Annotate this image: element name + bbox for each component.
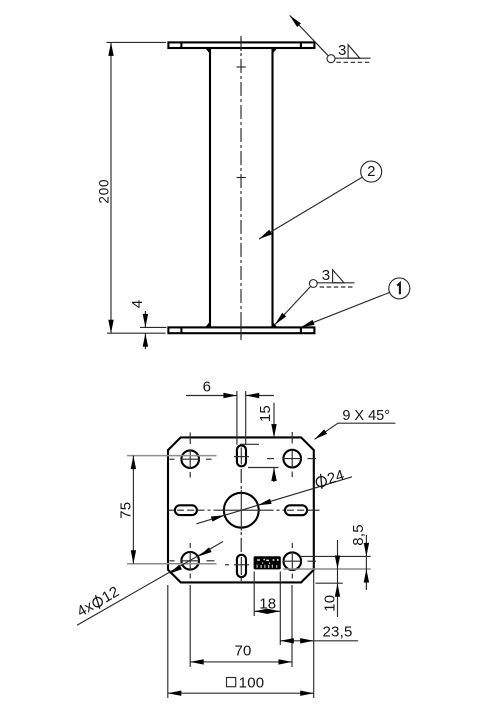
- hole top-right Ø12: [283, 450, 301, 468]
- centerline across top flange: [240, 39, 242, 51]
- chamfer note leader shoulder: [338, 422, 396, 424]
- slot bottom: [237, 555, 246, 577]
- dim square100 arrow left: [168, 691, 182, 696]
- svg-text:6: 6: [203, 379, 212, 396]
- balloon 2 leader arrowhead: [258, 230, 272, 242]
- top flange plate: [168, 42, 314, 48]
- dim 8.5 extension line bottom: [283, 568, 371, 570]
- slot left: [175, 505, 197, 515]
- balloon 1 leader: [301, 293, 389, 328]
- dim 70 arrow right: [279, 659, 293, 664]
- dim 6 dimension line left part: [186, 395, 237, 397]
- svg-text:10: 10: [322, 595, 339, 612]
- holes note leader: [77, 542, 223, 626]
- dim 18 arrow right: [267, 609, 281, 614]
- slot bottom centerline dash: [234, 564, 249, 566]
- dim 23.5 arrow left: [280, 638, 294, 643]
- dim 23.5 dimension line: [280, 640, 358, 642]
- holes note arrowhead on hole: [197, 547, 211, 558]
- weld symbol top leader: [290, 15, 329, 55]
- dim 75 arrow top: [131, 456, 136, 470]
- svg-text:75: 75: [117, 502, 134, 519]
- plate horizontal centerline: [168, 509, 321, 511]
- hole bottom-left Ø12: [181, 552, 199, 570]
- bottom flange chamfer tick left: [180, 327, 182, 333]
- svg-text:3: 3: [338, 42, 347, 59]
- dim 200 arrow bottom: [108, 320, 113, 334]
- centerline across bottom flange: [240, 325, 242, 338]
- dim 8.5 dimension line: [365, 535, 367, 590]
- extension line hatch right: [279, 572, 281, 646]
- hole bottom-right centerline cross: [283, 543, 316, 579]
- dim 4 dimension line lower: [144, 333, 146, 349]
- dim 6 dimension line right part: [246, 395, 274, 397]
- balloon 1 text: [397, 283, 400, 294]
- svg-text:2: 2: [367, 163, 376, 180]
- dim dia24 arrow right: [257, 499, 271, 508]
- slot right: [285, 505, 307, 515]
- dim 23.5 arrow right: [300, 638, 314, 643]
- extension line hole left column: [189, 585, 191, 667]
- weld symbol bottom leader: [275, 286, 311, 324]
- weld symbol top reference line: [335, 57, 371, 59]
- dim 75 dimension line: [132, 456, 134, 564]
- plate bottom edge extension right: [316, 582, 343, 584]
- dim 8.5 arrow bottom: [364, 569, 369, 583]
- balloon 1 leader arrowhead: [300, 320, 315, 330]
- weld symbol top fillet triangle: [348, 45, 360, 59]
- PLAN VIEW: [74, 379, 395, 699]
- extension line plate right edge: [313, 571, 315, 698]
- dim 200 arrow top: [108, 42, 113, 56]
- dim square100 dimension line: [168, 692, 314, 694]
- slot top centerline dash: [234, 456, 249, 458]
- chamfer note arrowhead: [313, 429, 327, 441]
- svg-text:18: 18: [259, 595, 276, 612]
- holes note arrowhead on chamfer: [168, 565, 182, 576]
- center hole centerline cross: [222, 509, 261, 511]
- weld fillet top left: [205, 48, 210, 54]
- top flange chamfer tick left: [180, 42, 182, 48]
- slot top: [237, 445, 246, 466]
- svg-text:200: 200: [97, 179, 112, 204]
- hole bottom-right Ø12: [284, 552, 302, 570]
- dim 10 arrow top: [335, 556, 340, 570]
- slot top tangent extension line: [240, 443, 259, 445]
- dim 200 dimension line: [110, 42, 112, 333]
- column tube left edge: [209, 48, 211, 327]
- marking area speckles: [257, 559, 279, 568]
- base plate outline with corner chamfers: [168, 437, 314, 582]
- weld symbol top dashed identification line: [336, 61, 369, 63]
- dim 4 extension line top: [140, 326, 167, 328]
- dim 18 arrow left: [254, 609, 268, 614]
- marking area hatch rectangle: [254, 556, 281, 569]
- dim 70 arrow left: [190, 659, 204, 664]
- dim 15 dimension line lower: [273, 468, 275, 483]
- dim 70 dimension line: [190, 661, 292, 663]
- weld symbol bottom circle: [309, 280, 317, 288]
- dim 4 arrow lower: [143, 333, 148, 347]
- weld fillet bottom left: [205, 321, 210, 327]
- dim dia24 dimension line: [196, 477, 352, 524]
- svg-text:70: 70: [234, 642, 251, 659]
- hole bottom-left centerline cross: [170, 543, 215, 579]
- weld symbol top leader arrowhead: [288, 14, 301, 28]
- weld fillet bottom right: [273, 321, 278, 327]
- plate vertical centerline: [240, 446, 242, 583]
- slot bottom left outside dash: [225, 564, 229, 566]
- top flange chamfer tick right: [300, 42, 302, 48]
- dim 6 extension line right: [245, 391, 247, 445]
- svg-text:4: 4: [129, 300, 146, 309]
- svg-text:23,5: 23,5: [323, 624, 353, 641]
- center mark tick lower: [237, 177, 246, 179]
- dim 15 dimension line upper: [273, 403, 275, 438]
- svg-text:15: 15: [257, 405, 274, 422]
- hole top-left Ø12: [181, 450, 199, 468]
- hole top-left centerline cross: [170, 433, 212, 478]
- weld fillet top right: [273, 48, 278, 54]
- weld symbol bottom leader arrowhead: [273, 313, 286, 327]
- dim 10 dimension line: [337, 540, 339, 617]
- svg-text:9 X 45°: 9 X 45°: [342, 408, 390, 424]
- hole top-right centerline cross: [267, 432, 316, 477]
- dim 200 extension line bottom: [107, 332, 166, 334]
- extension line plate left edge: [167, 585, 169, 698]
- extension line hatch left: [253, 572, 255, 617]
- center mark tick upper: [237, 66, 246, 68]
- dim 75 extension line bottom: [127, 563, 217, 565]
- weld symbol bottom fillet triangle: [333, 270, 344, 283]
- dim 8.5 arrow top: [364, 543, 369, 557]
- dim 200 extension line top: [107, 41, 167, 43]
- svg-text:100: 100: [239, 675, 265, 692]
- dim 15 extension line lower: [248, 467, 279, 469]
- weld symbol bottom reference line: [317, 282, 354, 284]
- balloon 2 leader: [259, 177, 363, 239]
- svg-text:3: 3: [322, 267, 331, 284]
- dim 6 extension line left: [236, 391, 238, 445]
- FRONT VIEW: [97, 14, 410, 349]
- centerline column axis: [240, 36, 242, 340]
- svg-text:8,5: 8,5: [350, 524, 367, 545]
- dim 10 arrow bottom: [335, 583, 340, 597]
- dim 6 arrow left: [223, 393, 237, 398]
- extension line hole right column: [291, 585, 293, 667]
- dim 15 arrow lower: [271, 468, 276, 482]
- dim 15 arrow upper: [271, 424, 276, 438]
- dim 8.5 extension line top: [301, 555, 371, 557]
- center hole Ø24: [224, 493, 259, 528]
- weld symbol bottom dashed identification line: [320, 286, 355, 288]
- dim 4 dimension line upper: [144, 311, 146, 327]
- dim dia24 text: [314, 467, 347, 492]
- holes note text 4xdia12: [74, 583, 122, 620]
- dim 6 arrow right: [246, 393, 260, 398]
- dim square100 text: [227, 678, 236, 687]
- column tube right edge: [271, 48, 273, 327]
- bottom flange plate: [168, 327, 314, 333]
- dim square100 arrow right: [300, 691, 314, 696]
- dim 18 dimension line: [254, 610, 280, 612]
- chamfer note leader: [315, 423, 338, 439]
- dim dia24 arrow left: [211, 513, 225, 522]
- dim 75 arrow bottom: [131, 550, 136, 564]
- weld symbol top circle: [327, 55, 335, 63]
- dim 75 extension line top: [127, 455, 217, 457]
- bottom flange chamfer tick right: [300, 327, 302, 333]
- balloon 1 circle: [389, 278, 410, 299]
- balloon 2 circle: [361, 161, 382, 182]
- dim 4 arrow upper: [143, 314, 148, 328]
